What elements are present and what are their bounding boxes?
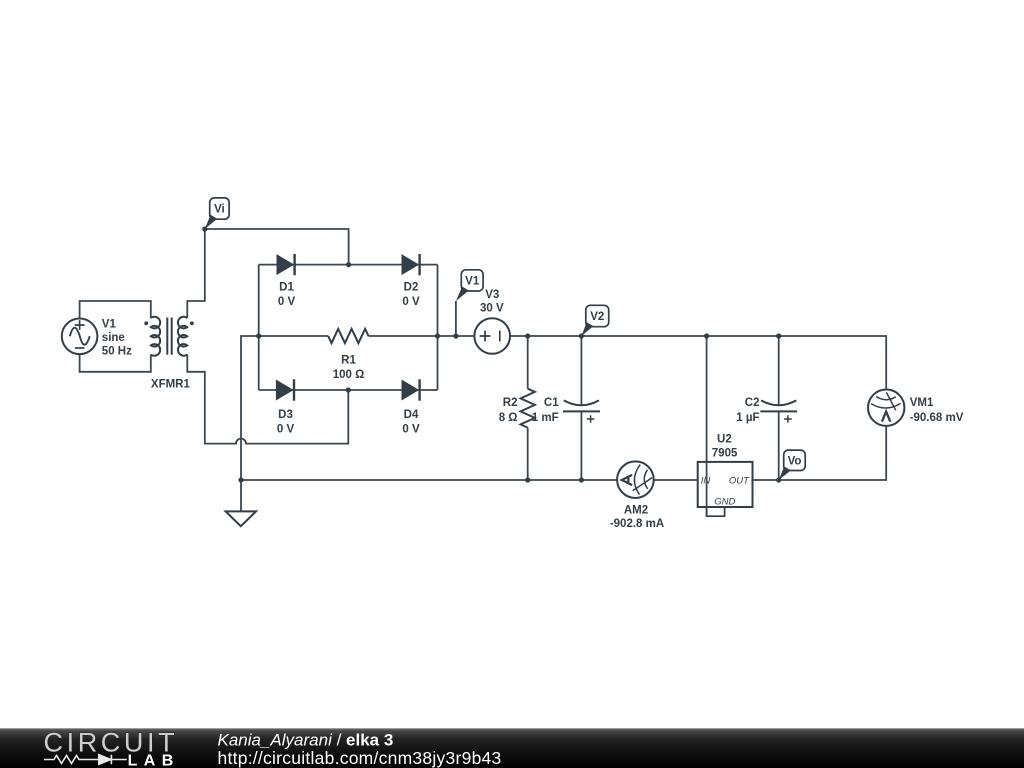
wire AM2 to U2 IN [654, 479, 698, 481]
U2 GND tab [707, 507, 725, 516]
wire R2 bottom lead [527, 428, 529, 480]
svg-text:100 Ω: 100 Ω [333, 369, 365, 381]
resistor R1 [328, 329, 368, 343]
logo resistor-diode doodle [44, 755, 127, 765]
voltage source V1 circle [62, 319, 98, 355]
wire C2 top lead [778, 336, 780, 405]
svg-text:D2: D2 [404, 282, 419, 294]
svg-text:LAB: LAB [128, 752, 180, 768]
C1 straight plate [563, 410, 600, 412]
resistor R2 [521, 389, 535, 428]
footer bar [0, 728, 1024, 768]
diode D2 [402, 255, 418, 274]
node V1 junction [453, 333, 458, 338]
junction D1-D2 [346, 262, 351, 267]
svg-text:sine: sine [102, 332, 125, 344]
node Vo junction (C2 bottom) [776, 477, 781, 482]
wire bridge right rail [437, 265, 439, 390]
wire bridge bottom row [259, 389, 438, 391]
node Vi junction [202, 226, 207, 231]
svg-text:0 V: 0 V [402, 296, 420, 308]
wire C1 bottom lead [580, 411, 582, 480]
VM1 letter V rotated 180 [882, 412, 890, 422]
wire top rail bridge to V3 [438, 335, 475, 337]
svg-text:1 mF: 1 mF [532, 412, 559, 424]
svg-text:D4: D4 [404, 409, 419, 421]
svg-text:GND: GND [714, 496, 735, 507]
svg-text:50 Hz: 50 Hz [102, 346, 132, 358]
V3 minus bar [499, 331, 501, 342]
C1 plus sign [587, 415, 595, 423]
svg-text:IN: IN [701, 476, 711, 487]
svg-text:1 µF: 1 µF [736, 412, 759, 424]
voltmeter VM1 circle [868, 390, 904, 426]
junction ground rail [238, 477, 243, 482]
V1 plus sign [75, 320, 85, 330]
svg-text:-90.68 mV: -90.68 mV [910, 412, 964, 424]
wire top rail V3 to VM1 top [510, 336, 886, 390]
wire bridge left rail [258, 265, 260, 390]
svg-text:AM2: AM2 [624, 504, 648, 516]
svg-text:XFMR1: XFMR1 [151, 378, 191, 390]
V1 sine symbol [70, 328, 90, 345]
svg-text:30 V: 30 V [480, 303, 504, 315]
svg-text:C2: C2 [745, 397, 760, 409]
junction R2 bottom [525, 477, 530, 482]
svg-text:0 V: 0 V [402, 424, 420, 436]
svg-text:R1: R1 [341, 355, 356, 367]
svg-text:V2: V2 [590, 311, 604, 323]
svg-text:-902.8 mA: -902.8 mA [610, 518, 664, 530]
wire C2 bottom lead [778, 411, 780, 480]
XFMR1 primary polarity dot [144, 321, 148, 325]
IC U2 7905 box [698, 462, 753, 507]
wire bridge left output down to ground [241, 336, 259, 511]
wire R2 top lead [527, 336, 529, 389]
V3 plus sign [480, 331, 491, 342]
capacitor C2 curved plate [761, 400, 796, 405]
wire U2 OUT to VM1 bottom [753, 426, 887, 480]
junction D3-D4 [346, 387, 351, 392]
svg-text:OUT: OUT [729, 476, 750, 487]
wire top rail to U2 GND pin [706, 336, 708, 516]
wire R1 right lead [369, 335, 438, 337]
ground symbol [226, 511, 256, 526]
svg-text:Kania_Alyarani / elka 3: Kania_Alyarani / elka 3 [218, 731, 394, 750]
svg-text:Vo: Vo [788, 456, 802, 468]
node V2 junction (C1 top) [579, 333, 584, 338]
svg-text:7905: 7905 [712, 448, 738, 460]
wire XFMR1 secondary top to node Vi [187, 229, 205, 318]
junction R2 top [525, 333, 530, 338]
AM2 meter arcs [634, 465, 647, 495]
diode D1 [277, 255, 293, 274]
junction U2 GND rail [704, 333, 709, 338]
svg-text:C1: C1 [544, 397, 559, 409]
node flag V2 [581, 305, 608, 336]
svg-text:V1: V1 [465, 276, 480, 288]
V1 minus sign [75, 347, 85, 349]
XFMR1 core [167, 318, 171, 355]
AM2 letter A rotated [622, 475, 632, 485]
diode D4 [402, 381, 418, 400]
svg-text:VM1: VM1 [910, 397, 934, 409]
wire bridge top row [259, 264, 438, 266]
node flag V1 [456, 270, 483, 301]
U2 pin labels [701, 476, 750, 508]
junction bridge left mid [256, 333, 261, 338]
svg-text:8 Ω: 8 Ω [499, 412, 518, 424]
wire node Vi to bridge top (D1-D2 junction) [205, 229, 349, 265]
wire V1 bottom to XFMR1 primary bottom [80, 354, 151, 372]
wire XFMR1 secondary bottom to D3-D4 junction (with hop over ground wire) [187, 355, 348, 444]
C2 plus sign [784, 415, 792, 423]
svg-text:D1: D1 [279, 282, 294, 294]
svg-text:0 V: 0 V [278, 296, 296, 308]
node flag Vo [779, 450, 806, 480]
svg-text:D3: D3 [278, 409, 293, 421]
wire node V1 stub [455, 301, 457, 336]
svg-text:Vi: Vi [214, 204, 225, 216]
svg-text:R2: R2 [503, 397, 518, 409]
junction C1 bottom [579, 477, 584, 482]
wire C1 top lead [580, 336, 582, 405]
svg-text:http://circuitlab.com/cnm38jy3: http://circuitlab.com/cnm38jy3r9b43 [218, 748, 502, 768]
ammeter AM2 circle [617, 461, 654, 498]
wire R1 left lead [259, 335, 329, 337]
wire V1 top to XFMR1 primary top [80, 301, 151, 319]
transformer XFMR1 secondary coil [178, 317, 187, 356]
XFMR1 secondary polarity dot [190, 321, 194, 325]
VM1 needle [886, 392, 896, 410]
junction node dots [202, 226, 781, 482]
wire bottom rail ground to AM2 [241, 479, 617, 481]
capacitor C1 curved plate [564, 400, 599, 405]
svg-text:0 V: 0 V [277, 424, 295, 436]
voltage source V3 circle [474, 318, 510, 354]
junction bridge right mid [435, 333, 440, 338]
junction C2 top [776, 333, 781, 338]
svg-text:V3: V3 [485, 289, 499, 301]
C2 straight plate [760, 410, 797, 412]
diode D3 [277, 381, 293, 400]
AM2 needle [633, 478, 652, 491]
VM1 meter arcs [871, 397, 901, 409]
node flag Vi [205, 198, 229, 229]
svg-text:U2: U2 [717, 434, 732, 446]
svg-text:V1: V1 [102, 318, 117, 330]
transformer XFMR1 primary coil [151, 317, 160, 356]
